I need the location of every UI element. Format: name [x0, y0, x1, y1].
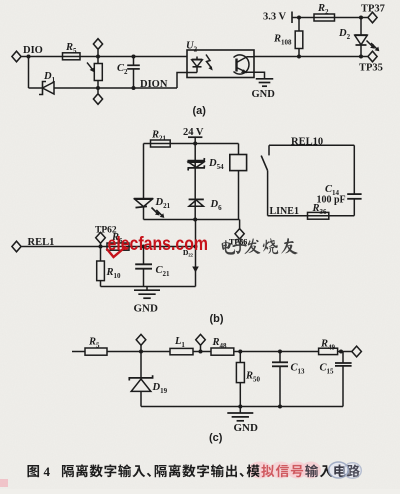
svg-text:(b): (b) — [210, 313, 224, 325]
svg-text:elecfans.com: elecfans.com — [108, 233, 209, 255]
svg-text:4: 4 — [44, 464, 51, 479]
svg-text:TP35: TP35 — [359, 63, 383, 74]
svg-text:GND: GND — [252, 89, 276, 100]
svg-text:TP66: TP66 — [229, 237, 247, 246]
svg-text:LINE1: LINE1 — [270, 206, 299, 217]
svg-text:DIO: DIO — [23, 45, 43, 56]
svg-text:DION: DION — [140, 79, 168, 90]
svg-text:(c): (c) — [209, 432, 223, 444]
svg-text:TP37: TP37 — [361, 4, 385, 15]
svg-text:GND: GND — [134, 303, 159, 315]
svg-text:3.3 V: 3.3 V — [263, 12, 287, 23]
svg-text:GND: GND — [234, 422, 259, 434]
svg-text:D₂₂: D₂₂ — [183, 248, 194, 257]
svg-text:100 pF: 100 pF — [317, 195, 346, 206]
svg-text:(a): (a) — [193, 105, 207, 117]
